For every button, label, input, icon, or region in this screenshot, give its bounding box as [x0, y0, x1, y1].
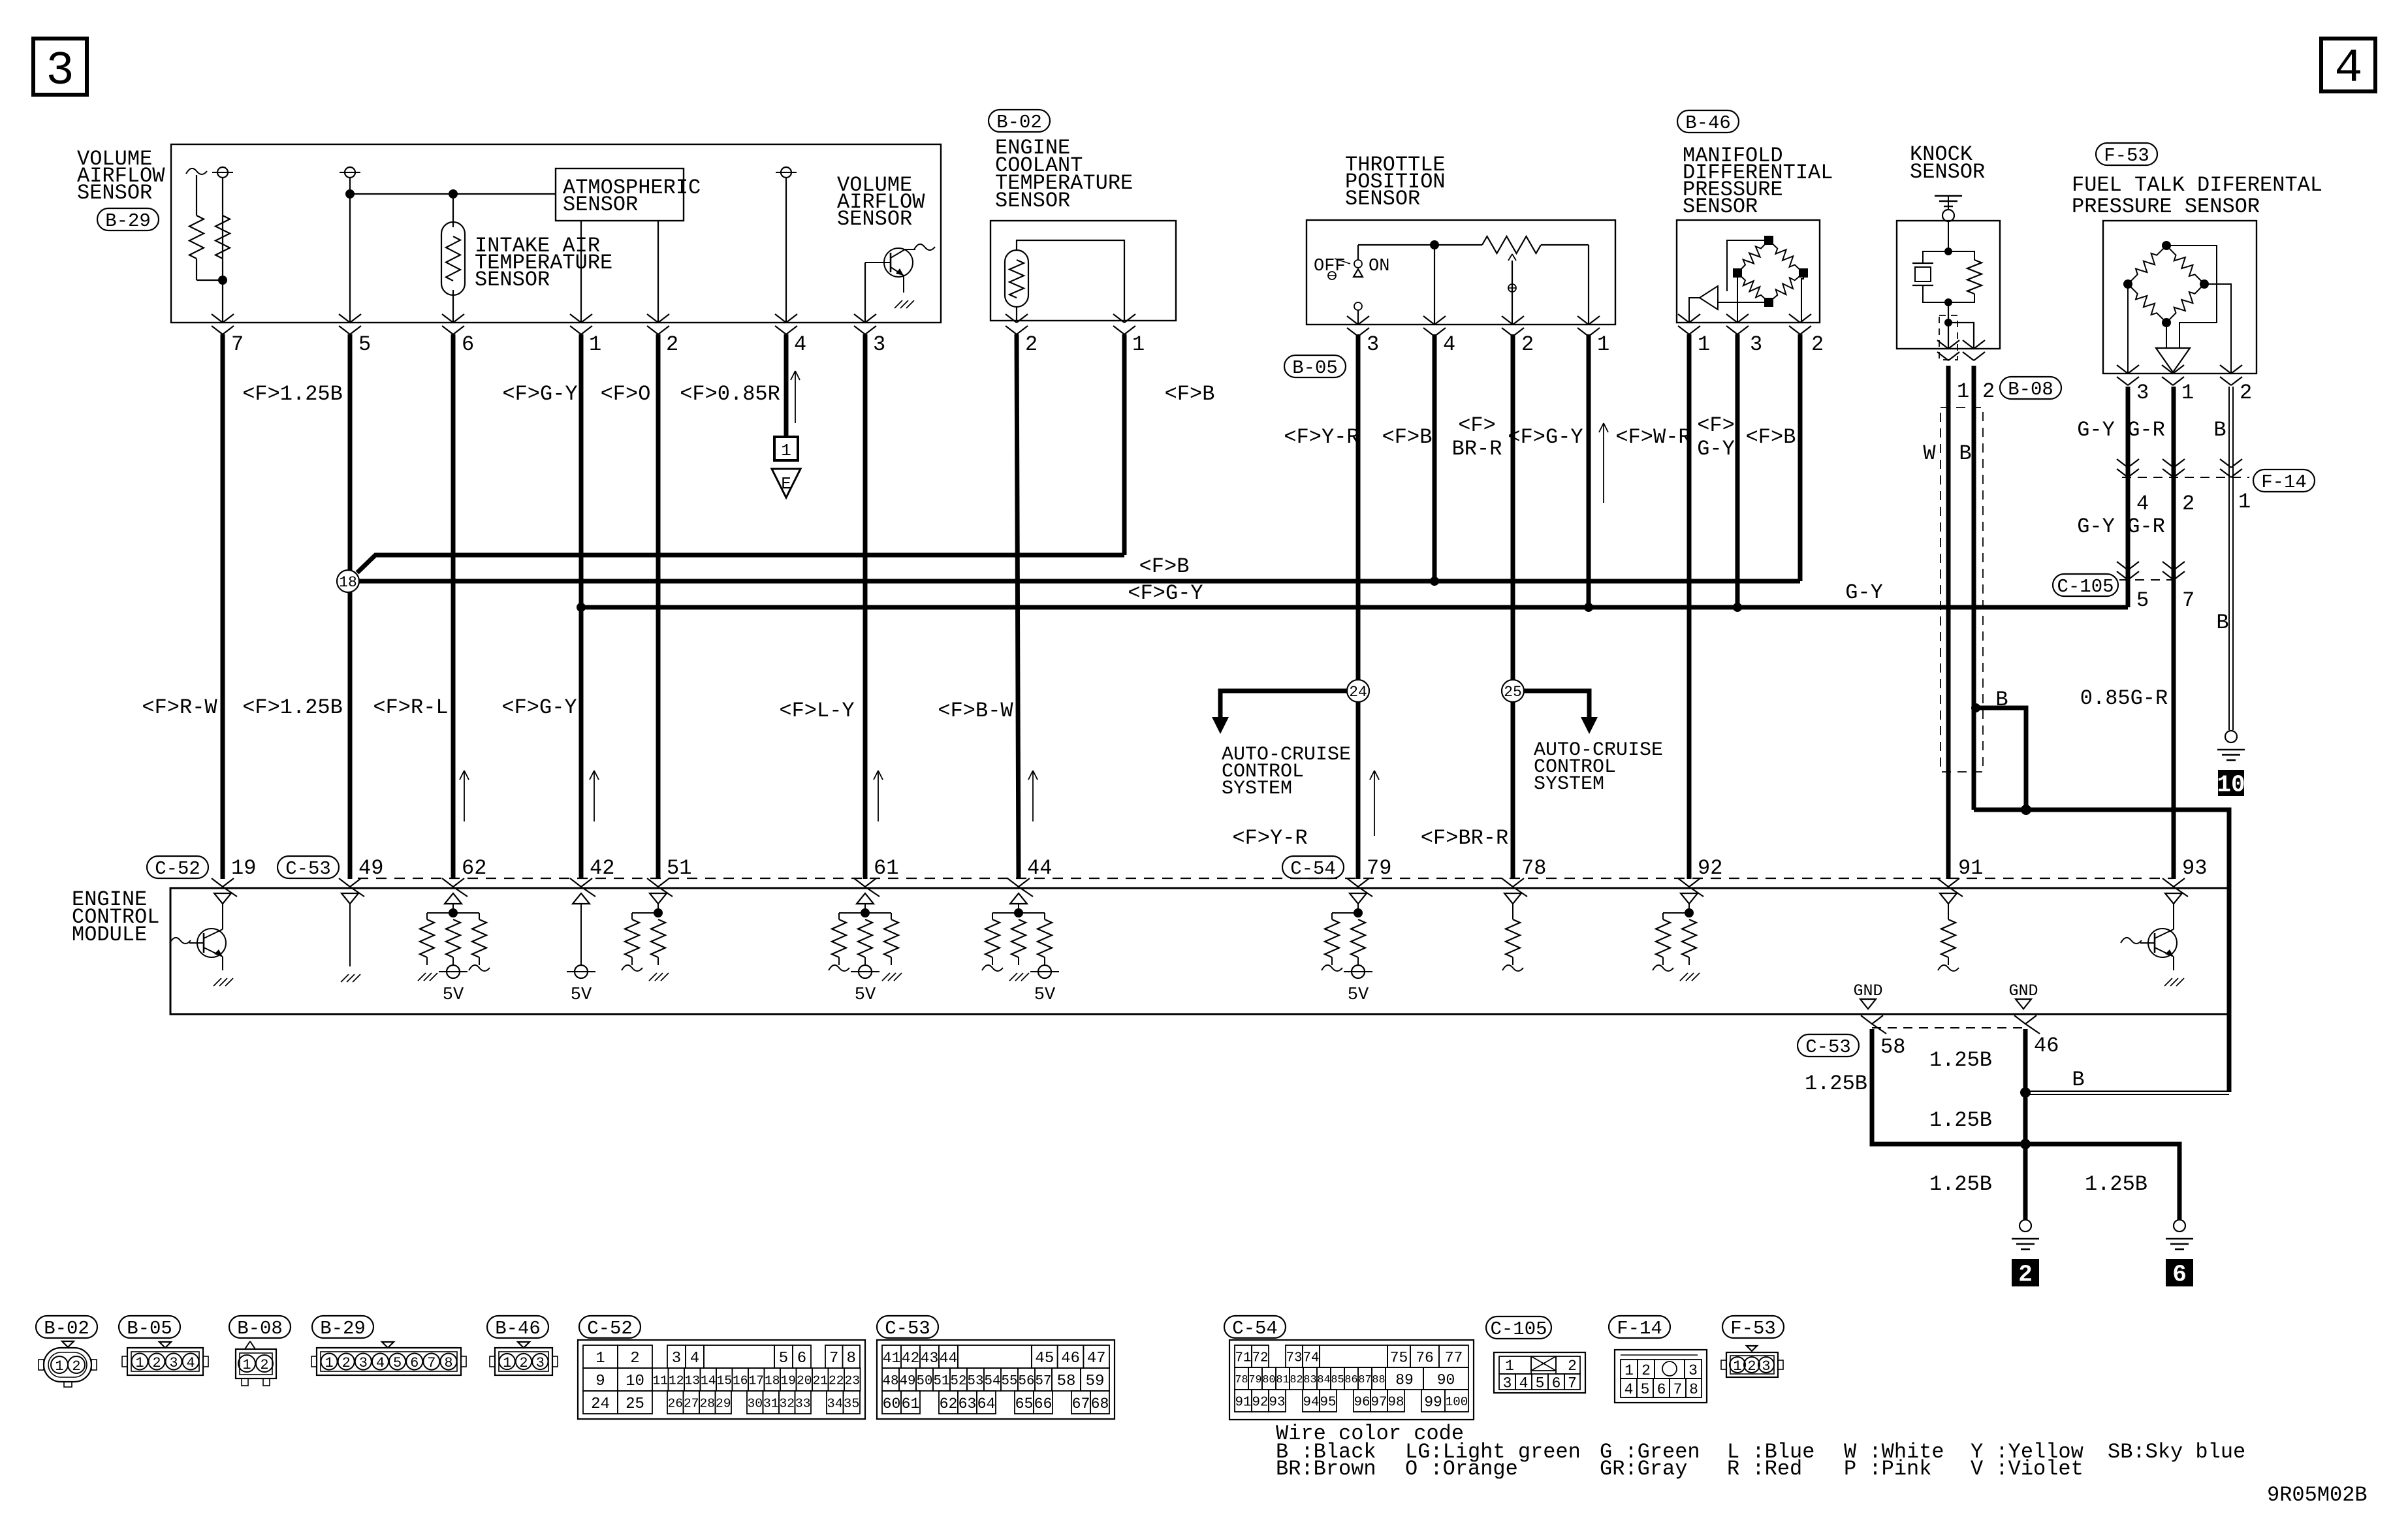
connector chevron pin 7 x341	[212, 314, 223, 323]
svg-text:3: 3	[2136, 381, 2149, 405]
svg-text:49: 49	[900, 1374, 916, 1389]
svg-text:45: 45	[1035, 1350, 1054, 1367]
svg-text:1.25B: 1.25B	[2085, 1172, 2147, 1196]
wire TPS2 to ECM 78 <F>BR-R	[1511, 334, 1515, 680]
VAF terminal circle pin4	[781, 167, 791, 178]
svg-text:C-52: C-52	[587, 1318, 633, 1339]
connector chevron FTDP pin 1	[2162, 365, 2173, 374]
svg-text:SENSOR: SENSOR	[995, 189, 1070, 213]
FTDP bridge resistor top-left	[2128, 246, 2166, 284]
wire pin5 to ECM 49 <F>1.25B	[348, 334, 353, 570]
svg-text:B-29: B-29	[105, 210, 151, 232]
ECM ground chevron 46	[2014, 1015, 2025, 1024]
svg-text:G-Y: G-Y	[1845, 581, 1883, 605]
svg-text:V :Violet: V :Violet	[1971, 1457, 2083, 1481]
FTDP bridge resistor top-right	[2166, 246, 2204, 284]
svg-text:5V: 5V	[1034, 985, 1056, 1005]
wire FTDP right node to pin2	[2204, 284, 2231, 374]
svg-text:22: 22	[829, 1374, 844, 1388]
connector label F-14 bottom	[1609, 1316, 1670, 1338]
svg-text:27: 27	[684, 1397, 699, 1411]
wire bus A <F>B from ECT1 to junction 18	[357, 555, 1124, 573]
svg-text:1: 1	[1733, 1358, 1741, 1375]
svg-text:42: 42	[590, 856, 614, 880]
svg-text:75: 75	[1390, 1349, 1408, 1366]
connector label F-53	[2096, 143, 2157, 165]
svg-text:30: 30	[747, 1397, 763, 1411]
wire FTDP pin3 stub	[2127, 284, 2129, 374]
svg-text:33: 33	[795, 1397, 811, 1411]
connector icon C-54 grid	[1229, 1340, 1474, 1420]
svg-text:82: 82	[1290, 1374, 1303, 1386]
svg-text:5: 5	[2136, 588, 2149, 613]
svg-text:G-Y: G-Y	[1697, 437, 1735, 461]
wire pin7 to ECM 19 <F>1.25B	[221, 334, 225, 879]
svg-text:16: 16	[733, 1374, 748, 1388]
svg-text:<F>G-Y: <F>G-Y	[1508, 425, 1583, 449]
FTDP output triangle	[2156, 348, 2190, 372]
ECM pin 92 resistor group R92	[1681, 893, 1698, 904]
wire MDP top node to amp	[1727, 240, 1769, 291]
wire VAF inner rail	[350, 193, 556, 195]
FTDP bridge resistor bottom-left	[2128, 284, 2166, 323]
svg-text:R :Red: R :Red	[1727, 1457, 1802, 1481]
svg-text:3: 3	[1688, 1362, 1698, 1379]
svg-text:77: 77	[1445, 1349, 1463, 1366]
svg-text:4: 4	[690, 1350, 699, 1367]
svg-text:3: 3	[46, 44, 74, 98]
svg-text:0.85G-R: 0.85G-R	[2080, 686, 2168, 710]
svg-text:5: 5	[358, 332, 371, 357]
connector icon B-29	[317, 1348, 461, 1375]
node junction circle 25	[1502, 680, 1524, 702]
svg-text:28: 28	[699, 1397, 715, 1411]
svg-text:PRESSURE SENSOR: PRESSURE SENSOR	[2072, 195, 2260, 219]
svg-text:SYSTEM: SYSTEM	[1534, 773, 1604, 795]
page number box 4	[2321, 39, 2375, 91]
ground triangle E	[772, 469, 800, 498]
connector label B-08 bottom	[229, 1316, 291, 1338]
svg-text:79: 79	[1367, 856, 1391, 880]
svg-text:13: 13	[684, 1374, 700, 1388]
svg-text:3: 3	[1762, 1358, 1770, 1375]
svg-text:1: 1	[589, 332, 601, 357]
svg-text:C-105: C-105	[2057, 576, 2114, 598]
svg-text:<F>B: <F>B	[1382, 425, 1433, 449]
arrow up 0.85R	[795, 371, 796, 423]
svg-text:2: 2	[260, 1357, 268, 1373]
svg-text:MODULE: MODULE	[72, 923, 147, 947]
TPS resistor	[1482, 236, 1541, 253]
svg-text:4: 4	[186, 1355, 195, 1371]
svg-text:7: 7	[231, 332, 244, 357]
ground symbol 2	[2020, 1220, 2031, 1232]
junction ground 58/46	[2020, 1139, 2031, 1149]
svg-text:61: 61	[902, 1395, 920, 1412]
svg-text:15: 15	[716, 1374, 732, 1388]
svg-text:50: 50	[917, 1374, 933, 1389]
wire pin6 to ECM 62 <F>G-Y / R-L	[451, 334, 456, 879]
wire pin4 to ground E	[784, 334, 789, 437]
junction B branch on bus	[2021, 805, 2031, 815]
svg-text:68: 68	[1091, 1395, 1109, 1412]
svg-text:OFF: OFF	[1314, 257, 1346, 276]
svg-text:G-Y: G-Y	[2077, 515, 2115, 539]
svg-text:B: B	[2072, 1068, 2084, 1092]
svg-text:62: 62	[940, 1395, 958, 1412]
svg-text:57: 57	[1036, 1374, 1052, 1389]
svg-text:48: 48	[883, 1374, 899, 1389]
svg-text:5: 5	[1536, 1375, 1545, 1392]
MDP bridge resistor top-right	[1769, 240, 1803, 273]
svg-text:1: 1	[2238, 490, 2251, 514]
svg-text:SENSOR: SENSOR	[1683, 195, 1758, 219]
svg-text:9R05M02B: 9R05M02B	[2267, 1483, 2368, 1507]
connector icon C-53 grid	[877, 1340, 1115, 1419]
svg-text:59: 59	[1086, 1373, 1105, 1390]
svg-text:3: 3	[536, 1355, 545, 1371]
svg-text:B-02: B-02	[44, 1318, 89, 1339]
svg-text:W: W	[1923, 441, 1936, 466]
wire ECT2 to ECM 44 <F>B / B-W	[1017, 334, 1019, 879]
connector icon B-05	[127, 1348, 203, 1375]
inline connector C-105 chevrons	[2117, 562, 2128, 570]
svg-text:<F>O: <F>O	[601, 382, 651, 406]
svg-text:66: 66	[1034, 1395, 1053, 1412]
MDP bridge node top	[1764, 236, 1773, 245]
wire TPS pin1 stub	[1588, 245, 1589, 325]
intake air temperature sensor capsule	[441, 222, 465, 295]
svg-text:<F>W-R: <F>W-R	[1615, 425, 1690, 449]
svg-text:34: 34	[827, 1397, 843, 1412]
engine coolant temperature sensor box B-02	[990, 221, 1176, 321]
FTDP bridge node left	[2123, 279, 2132, 289]
wire FTDP2 B down to ground 10	[2228, 387, 2230, 730]
connector label B-08	[2000, 377, 2061, 399]
svg-text:92: 92	[1698, 856, 1722, 880]
svg-text:10: 10	[626, 1373, 644, 1390]
wire FTDP top node loop	[2166, 246, 2217, 348]
wire TPS1 to bus C <F>G-Y	[1587, 334, 1591, 607]
wire ground 58 1.25B	[1872, 1029, 2025, 1144]
svg-text:9: 9	[595, 1373, 605, 1390]
connector label C-53 bottom row	[877, 1316, 938, 1338]
svg-text:5: 5	[393, 1355, 402, 1371]
svg-text:8: 8	[444, 1355, 452, 1371]
connector chevron pin 4 x1204	[775, 314, 786, 323]
connector chevron pin 1 x890	[570, 314, 581, 323]
svg-text:<F>B: <F>B	[1165, 382, 1215, 406]
svg-text:B-46: B-46	[1685, 112, 1731, 134]
junction bus C TPS1	[1584, 603, 1593, 612]
svg-text:1.25B: 1.25B	[1929, 1172, 1992, 1196]
ECM pin 78 resistor R78	[1504, 893, 1521, 904]
knock terminal circle	[1942, 210, 1954, 221]
svg-text:E: E	[781, 474, 791, 494]
arrow up 62	[464, 771, 465, 821]
ECM pin 91 resistor R91	[1940, 893, 1957, 904]
ground badge 2	[2012, 1259, 2039, 1286]
FTDP B wire ground	[2225, 731, 2237, 742]
svg-text:<F>0.85R: <F>0.85R	[680, 382, 780, 406]
wire MDP bottom node to amp	[1719, 302, 1769, 303]
junction bus C at 42	[577, 603, 586, 612]
svg-text:1: 1	[55, 1358, 63, 1375]
svg-text:58: 58	[1057, 1373, 1076, 1390]
junction bus B TPS4	[1430, 577, 1439, 586]
wire branch 25 to auto-cruise	[1524, 691, 1589, 717]
svg-text:42: 42	[902, 1350, 920, 1367]
svg-text:SB:Sky blue: SB:Sky blue	[2108, 1440, 2245, 1464]
ECM connector chevron pin 61	[854, 878, 865, 887]
svg-text:6: 6	[1552, 1375, 1561, 1392]
svg-text:74: 74	[1303, 1350, 1320, 1365]
svg-text:FUEL TALK DIFERENTAL: FUEL TALK DIFERENTAL	[2072, 173, 2322, 197]
svg-text:1: 1	[325, 1355, 333, 1371]
svg-text:O :Orange: O :Orange	[1405, 1457, 1518, 1481]
svg-text:94: 94	[1303, 1395, 1320, 1410]
svg-text:51: 51	[934, 1374, 950, 1389]
wire ECT pin2 stub	[1016, 307, 1017, 321]
svg-text:<F>: <F>	[1697, 413, 1735, 438]
svg-text:BR:Brown: BR:Brown	[1276, 1457, 1376, 1481]
connector chevron pin 1 x2433	[1577, 316, 1589, 325]
connector icon B-46	[495, 1348, 552, 1375]
connector chevron pin 2 x1008	[647, 314, 658, 323]
svg-text:7: 7	[829, 1350, 838, 1367]
svg-text:97: 97	[1371, 1395, 1387, 1410]
svg-text:44: 44	[1027, 856, 1052, 880]
svg-text:17: 17	[748, 1374, 764, 1388]
svg-text:1.25B: 1.25B	[1929, 1108, 1992, 1132]
connector icon C-105	[1494, 1352, 1585, 1393]
junction knock bottom	[1944, 298, 1952, 306]
svg-text:B: B	[2213, 418, 2226, 442]
svg-text:25: 25	[1504, 684, 1522, 701]
svg-text:1: 1	[1624, 1362, 1634, 1379]
svg-text:44: 44	[940, 1350, 958, 1367]
MDP bridge node right	[1799, 268, 1808, 278]
wire MDP1 to ECM 92 <F>W-R	[1687, 334, 1692, 879]
ECM connector chevron pin 49	[339, 878, 350, 887]
ECM connector chevron pin 92	[1678, 878, 1689, 887]
svg-text:<F>BR-R: <F>BR-R	[1421, 826, 1508, 850]
TPS idle switch	[1357, 245, 1359, 260]
svg-text:19: 19	[231, 856, 256, 880]
volume airflow sensor box B-29	[171, 144, 941, 323]
junction rail pin5	[345, 189, 355, 199]
svg-text:SENSOR: SENSOR	[837, 207, 912, 231]
svg-text:<F>Y-R: <F>Y-R	[1284, 425, 1359, 449]
junction VAF resistors	[218, 276, 227, 285]
connector chevron pin 2 x2757	[1789, 314, 1800, 323]
svg-text:4: 4	[2334, 42, 2362, 95]
svg-text:99: 99	[1424, 1394, 1442, 1410]
arrow up 44	[1032, 771, 1034, 821]
svg-text:<F>1.25B: <F>1.25B	[242, 382, 343, 406]
ECM dashed connector line	[358, 878, 2174, 879]
svg-text:<F>Y-R: <F>Y-R	[1232, 826, 1307, 850]
svg-text:90: 90	[1437, 1371, 1455, 1388]
atmospheric sensor box	[556, 168, 684, 221]
ECM pin 79 resistor group R79	[1350, 893, 1367, 904]
junction knock top	[1944, 247, 1952, 255]
svg-text:GND: GND	[1853, 981, 1882, 1000]
ground box 1	[774, 437, 798, 460]
svg-text:C-105: C-105	[1490, 1318, 1547, 1340]
wire VAF pin3 inner	[864, 263, 866, 323]
junction ground B	[2020, 1087, 2031, 1098]
svg-text:<F>B: <F>B	[1746, 425, 1796, 449]
svg-text:54: 54	[985, 1374, 1001, 1389]
connector label B-02 bottom	[36, 1316, 97, 1338]
svg-text:24: 24	[1349, 684, 1367, 701]
junction rail pin6	[449, 189, 458, 199]
wire ATM2 to ECM 51 <F>0.85R	[656, 334, 661, 879]
svg-text:C-52: C-52	[155, 858, 200, 880]
svg-text:<F>B-W: <F>B-W	[938, 699, 1013, 723]
svg-text:6: 6	[797, 1350, 806, 1367]
svg-text:<F>G-Y: <F>G-Y	[1128, 581, 1203, 605]
svg-text:B-02: B-02	[996, 112, 1042, 133]
svg-text:5V: 5V	[443, 985, 464, 1005]
wire B link to knock bus	[2025, 1091, 2231, 1092]
svg-text:F-53: F-53	[2104, 145, 2149, 167]
VAF pin7 inner wire	[222, 178, 223, 323]
svg-text:18: 18	[339, 574, 357, 591]
svg-text:72: 72	[1252, 1350, 1269, 1365]
ECM connector chevron pin 19	[212, 878, 223, 887]
svg-text:5V: 5V	[571, 985, 592, 1005]
ECM pin 42 5V pullup	[573, 893, 590, 904]
connector chevron pin 2 x1557	[1006, 314, 1017, 323]
transistor Q1 ECM	[197, 929, 226, 957]
svg-text:81: 81	[1276, 1374, 1289, 1386]
wire FTDP pin1 stub	[2172, 372, 2174, 374]
FTDP bridge node right	[2200, 279, 2209, 289]
wire FTDP1 G-R to ECM 93	[2172, 387, 2176, 879]
svg-text:2: 2	[1568, 1358, 1577, 1375]
svg-text:G-Y: G-Y	[2077, 418, 2115, 442]
svg-text:78: 78	[1235, 1374, 1248, 1386]
svg-text:95: 95	[1320, 1395, 1337, 1410]
svg-text:83: 83	[1303, 1374, 1316, 1386]
svg-text:2: 2	[2182, 492, 2194, 516]
svg-text:14: 14	[701, 1374, 716, 1388]
wire MDP3 to bus C <F>B	[1735, 334, 1740, 607]
svg-text:1.25B: 1.25B	[1805, 1072, 1867, 1096]
connector label C-53 ground	[1798, 1034, 1859, 1057]
wire knock1 W to ECM 91	[1946, 366, 1951, 879]
FTDP bridge node bottom	[2162, 318, 2171, 327]
junction TPS rail pin4	[1430, 240, 1439, 249]
connector label B-02	[989, 110, 1050, 132]
connector chevron pin 3 x2080	[1347, 316, 1358, 325]
VAF left resistor R1	[196, 175, 197, 215]
transistor Q-VAF	[884, 248, 913, 277]
connector chevron pin 5 x536	[339, 314, 350, 323]
svg-text:2: 2	[1747, 1358, 1756, 1375]
svg-text:1.25B: 1.25B	[1929, 1048, 1992, 1072]
junction bus C MDP3	[1733, 603, 1742, 612]
ECM connector chevron pin 42	[570, 878, 581, 887]
svg-text:1: 1	[1698, 332, 1710, 357]
connector icon B-08	[236, 1349, 276, 1379]
wire ATM pin2 stub	[657, 221, 659, 323]
svg-text:3: 3	[873, 332, 885, 357]
MDP amplifier U1	[1700, 286, 1718, 310]
svg-text:7: 7	[1673, 1381, 1683, 1398]
node junction circle 18	[337, 570, 359, 592]
connector label F-53 bottom	[1722, 1316, 1784, 1338]
svg-text:2: 2	[666, 332, 678, 357]
svg-text:92: 92	[1252, 1395, 1269, 1410]
svg-text:B: B	[1959, 441, 1971, 466]
FTDP bridge resistor bottom-right	[2166, 284, 2204, 323]
svg-text:SYSTEM: SYSTEM	[1222, 778, 1292, 800]
svg-text:100: 100	[1446, 1395, 1468, 1409]
knock sensor box	[1897, 221, 2000, 349]
svg-text:3: 3	[1750, 332, 1762, 357]
svg-text:GND: GND	[2008, 981, 2038, 1000]
FTDP bridge node top	[2162, 241, 2171, 250]
svg-text:18: 18	[765, 1374, 780, 1388]
inline connector F-14 dashed	[2122, 477, 2249, 478]
ECM connector chevron pin 51	[647, 878, 658, 887]
svg-text:<F>B: <F>B	[1139, 554, 1190, 579]
connector label C-52	[147, 856, 208, 878]
svg-text:79: 79	[1248, 1374, 1261, 1386]
svg-text:C-53: C-53	[1805, 1036, 1851, 1058]
svg-text:96: 96	[1354, 1395, 1370, 1410]
svg-text:1: 1	[1132, 332, 1145, 357]
svg-text:71: 71	[1235, 1350, 1252, 1365]
wire ground 46 1.25B	[2023, 1029, 2028, 1220]
connector label B-46 bottom	[487, 1316, 548, 1338]
svg-text:1: 1	[781, 441, 791, 460]
connector label F-14	[2253, 470, 2315, 492]
knock inner dashed box	[1939, 315, 1957, 360]
ECM pin 44 resistor group R44	[1010, 893, 1027, 904]
svg-text:73: 73	[1286, 1350, 1303, 1365]
knock resistor R1	[1948, 251, 1974, 260]
svg-text:41: 41	[883, 1350, 901, 1367]
knock wires dashed box	[1941, 407, 1983, 772]
svg-text:3: 3	[359, 1355, 368, 1371]
svg-text:2: 2	[1641, 1362, 1651, 1379]
wire FTDP bottom node	[2166, 323, 2167, 348]
wire MDP left node to pin3	[1737, 273, 1738, 323]
svg-text:31: 31	[763, 1397, 779, 1411]
svg-text:C-53: C-53	[885, 1318, 930, 1339]
connector label B-05 bottom	[119, 1316, 180, 1338]
connector label B-29	[97, 208, 159, 231]
svg-text:SENSOR: SENSOR	[1910, 160, 1985, 184]
svg-text:F-53: F-53	[1730, 1318, 1776, 1339]
connector label C-53	[277, 856, 339, 878]
ground badge 6	[2166, 1259, 2193, 1286]
svg-text:10: 10	[2217, 772, 2245, 799]
wire ground to badge 6	[2025, 1144, 2179, 1220]
svg-text:6: 6	[1657, 1381, 1666, 1398]
svg-text:5V: 5V	[1348, 985, 1369, 1005]
svg-text:7: 7	[1568, 1375, 1577, 1392]
inline connector F-14 chevrons	[2117, 459, 2128, 468]
svg-text:1: 1	[135, 1355, 144, 1371]
svg-text:6: 6	[462, 332, 474, 357]
ground badge 10	[2218, 770, 2244, 796]
svg-text:98: 98	[1388, 1395, 1404, 1410]
